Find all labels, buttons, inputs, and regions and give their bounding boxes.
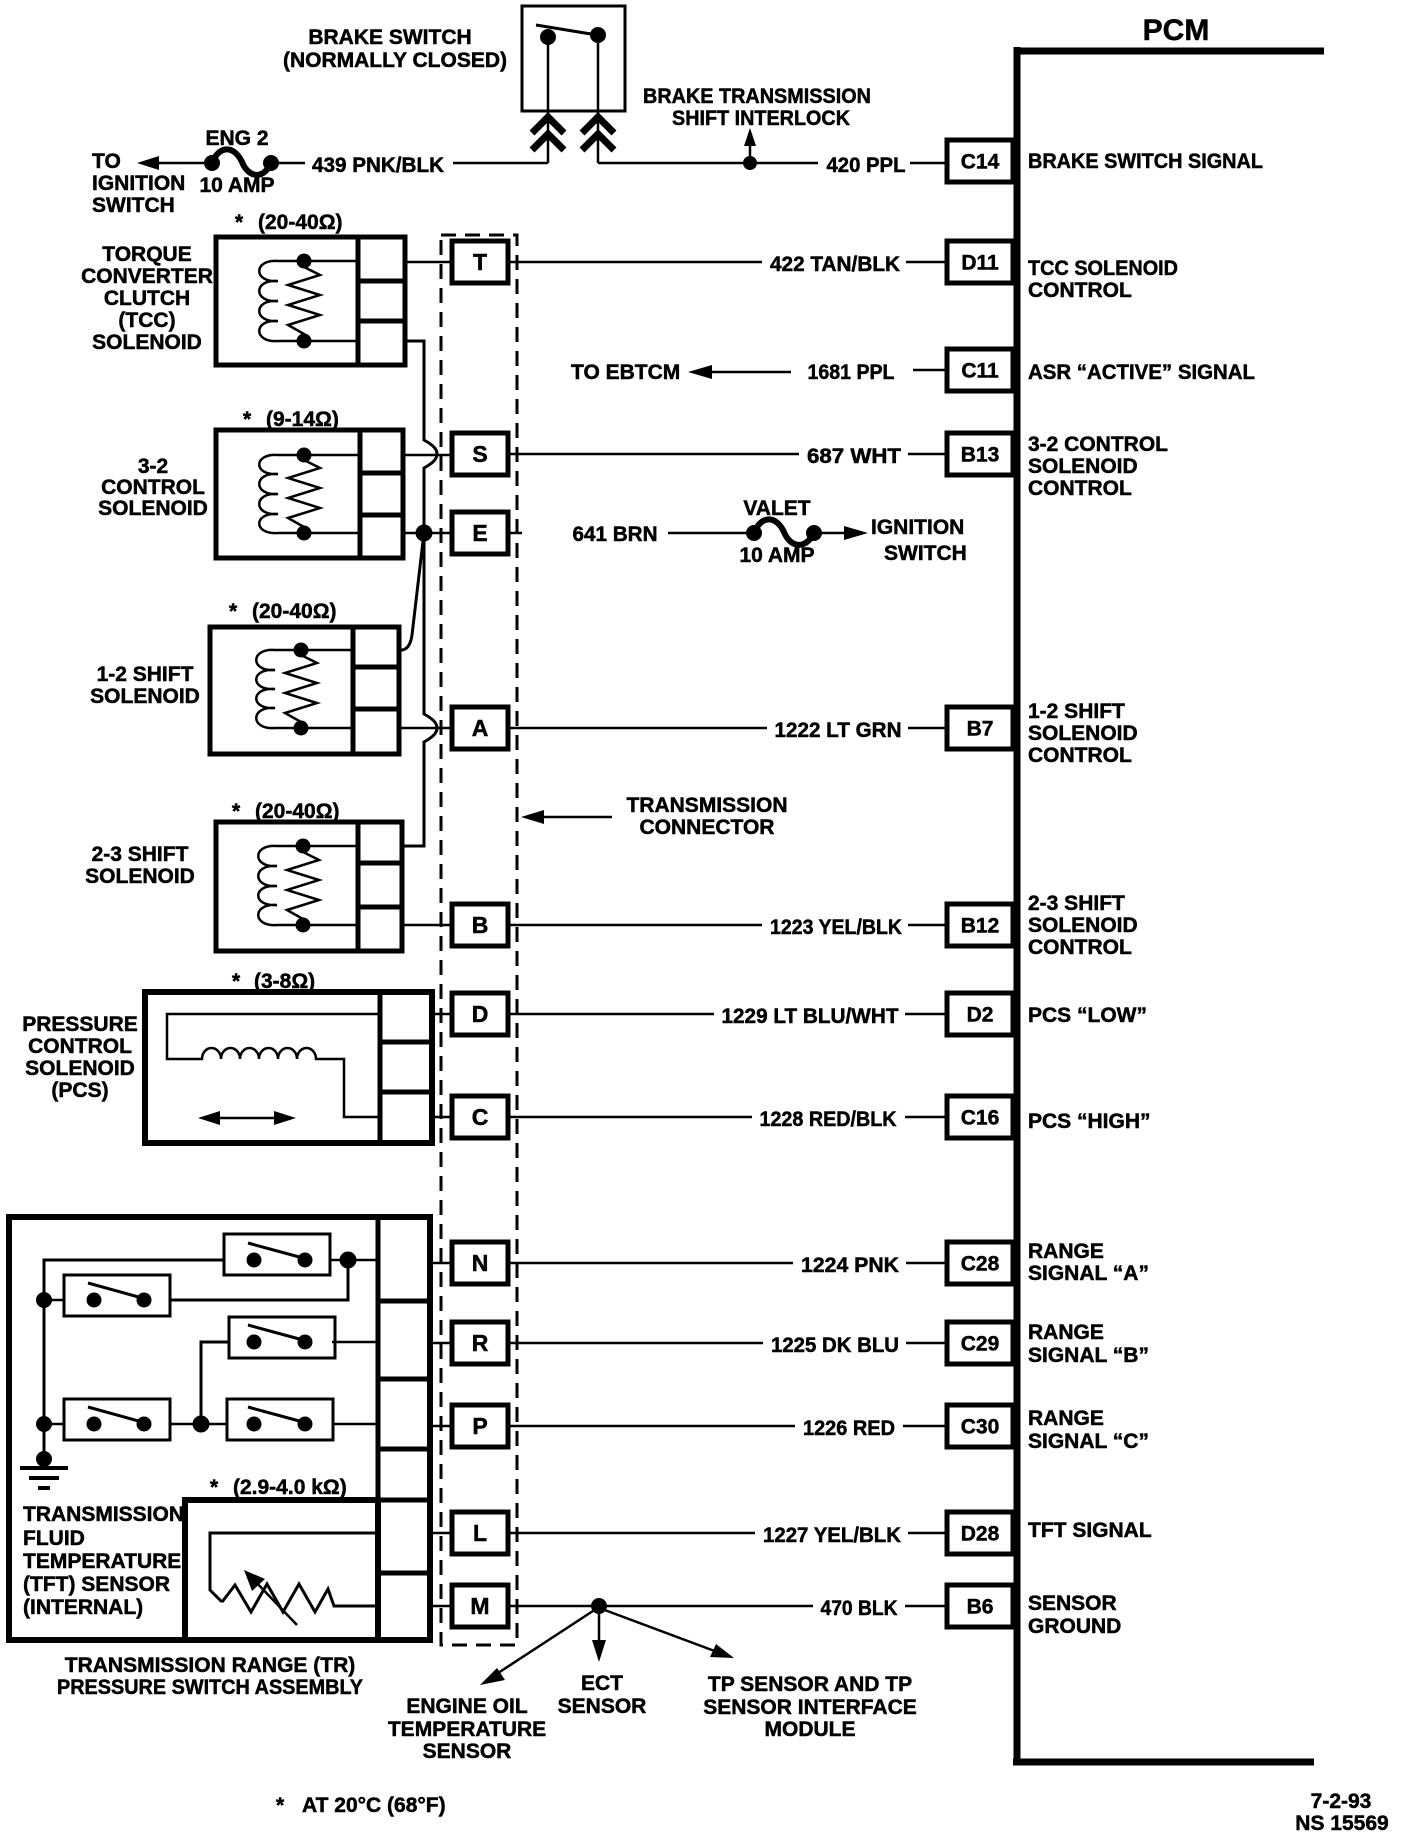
svg-text:SENSOR: SENSOR	[1028, 1592, 1117, 1615]
arrow to ECT sensor	[598, 1610, 601, 1648]
wire 2-3 bottom pin to B	[402, 924, 452, 927]
svg-text:TCC SOLENOID: TCC SOLENOID	[1028, 257, 1178, 280]
svg-text:1222 LT GRN: 1222 LT GRN	[775, 719, 902, 742]
svg-text:439 PNK/BLK: 439 PNK/BLK	[312, 154, 444, 177]
3-2 control solenoid	[216, 430, 403, 558]
thermistor arrow	[252, 1578, 297, 1625]
svg-text:D28: D28	[961, 1523, 1000, 1546]
connector pin S	[452, 433, 508, 475]
svg-text:(20-40Ω): (20-40Ω)	[258, 211, 343, 234]
svg-text:(TCC): (TCC)	[118, 309, 175, 332]
node SW3/SW5 junction	[193, 1416, 210, 1433]
PCM pin B12	[947, 904, 1013, 946]
svg-text:TEMPERATURE: TEMPERATURE	[23, 1550, 181, 1573]
connector pin N	[452, 1242, 508, 1284]
svg-text:TP SENSOR AND TP: TP SENSOR AND TP	[708, 1673, 912, 1696]
svg-text:D: D	[472, 1001, 489, 1027]
wire 1225 DK BLU	[508, 1342, 763, 1345]
wire 470 BLK	[508, 1605, 813, 1608]
svg-text:SWITCH: SWITCH	[92, 194, 175, 217]
svg-text:420 PPL: 420 PPL	[827, 154, 906, 177]
svg-text:L: L	[473, 1520, 487, 1546]
svg-text:C: C	[472, 1104, 489, 1130]
PCM pin B7	[947, 707, 1013, 749]
TCC solenoid	[216, 237, 405, 365]
svg-text:*: *	[232, 800, 241, 823]
brake switch (normally closed)	[522, 6, 625, 111]
wire 439 PNK/BLK	[277, 162, 305, 165]
transmission fluid temperature (TFT) sensor box	[185, 1500, 378, 1640]
svg-text:B13: B13	[961, 444, 1000, 467]
svg-text:CONVERTER: CONVERTER	[81, 265, 213, 288]
svg-text:*: *	[232, 970, 241, 993]
svg-text:D2: D2	[967, 1004, 994, 1027]
wire 1-2 bottom pin to A	[399, 727, 452, 730]
svg-text:SENSOR: SENSOR	[423, 1740, 512, 1763]
coil winding	[259, 261, 304, 341]
svg-text:1-2 SHIFT: 1-2 SHIFT	[97, 663, 194, 686]
svg-text:SOLENOID: SOLENOID	[25, 1057, 135, 1080]
svg-text:FLUID: FLUID	[23, 1527, 85, 1550]
wire P row	[44, 1423, 64, 1426]
svg-text:SOLENOID: SOLENOID	[1028, 914, 1138, 937]
arrow to engine oil temperature sensor	[492, 1609, 596, 1677]
wire 1224 PNK	[508, 1262, 793, 1265]
svg-text:SENSOR: SENSOR	[558, 1695, 647, 1718]
pressure switch SW3 (range B)	[229, 1317, 335, 1358]
svg-text:470 BLK: 470 BLK	[821, 1597, 898, 1620]
ground	[36, 1451, 52, 1467]
svg-text:TORQUE: TORQUE	[102, 243, 191, 266]
svg-text:1681 PPL: 1681 PPL	[808, 361, 895, 384]
PCM pin C11	[947, 349, 1013, 391]
svg-text:TRANSMISSION: TRANSMISSION	[23, 1503, 184, 1526]
node range A junction	[340, 1252, 357, 1269]
svg-text:SOLENOID: SOLENOID	[92, 331, 202, 354]
PCM pin C16	[947, 1096, 1013, 1138]
wire TR box to pin	[430, 1605, 452, 1608]
svg-text:(20-40Ω): (20-40Ω)	[252, 600, 337, 623]
pressure switch SW5 (range C)	[227, 1399, 333, 1440]
svg-text:1229 LT BLU/WHT: 1229 LT BLU/WHT	[722, 1005, 899, 1028]
svg-text:TFT SIGNAL: TFT SIGNAL	[1028, 1519, 1152, 1542]
wire 1222 LT GRN	[508, 727, 767, 730]
fuse VALET 10 AMP	[746, 525, 762, 541]
svg-text:CONTROL: CONTROL	[28, 1035, 132, 1058]
resistor element	[288, 455, 320, 532]
wire node E down to 2-3 top pin (with crossover)	[402, 533, 437, 846]
connector pin R	[452, 1322, 508, 1364]
svg-text:C28: C28	[961, 1253, 1000, 1276]
TFT thermistor wiring	[210, 1533, 378, 1602]
svg-text:A: A	[472, 715, 489, 741]
svg-text:T: T	[473, 249, 487, 275]
2-3 shift solenoid	[216, 822, 402, 951]
wire coil to pins	[301, 649, 353, 652]
wire 3-2 bottom pin to E	[403, 532, 452, 535]
arrow to transmission connector	[534, 816, 612, 819]
PCM pin D11	[947, 241, 1013, 283]
svg-text:10 AMP: 10 AMP	[199, 174, 274, 197]
svg-text:2-3 SHIFT: 2-3 SHIFT	[92, 843, 189, 866]
wire coil to pins	[304, 454, 360, 457]
node bottom terminal	[297, 526, 312, 541]
svg-text:SIGNAL “B”: SIGNAL “B”	[1028, 1344, 1149, 1367]
svg-text:C29: C29	[961, 1333, 1000, 1356]
svg-text:RANGE: RANGE	[1028, 1240, 1104, 1263]
svg-text:MODULE: MODULE	[765, 1718, 856, 1741]
svg-text:10 AMP: 10 AMP	[739, 544, 814, 567]
wire 1226 RED	[508, 1425, 795, 1428]
node top terminal	[297, 254, 312, 269]
PCS armature double arrow	[212, 1117, 282, 1120]
svg-text:ECT: ECT	[581, 1672, 623, 1695]
node bottom terminal	[296, 918, 311, 933]
svg-text:PCM: PCM	[1143, 14, 1210, 47]
svg-text:SOLENOID: SOLENOID	[1028, 455, 1138, 478]
svg-text:N: N	[472, 1250, 489, 1276]
connector chevrons right pin	[582, 117, 614, 150]
arrow to ignition switch	[155, 162, 209, 165]
coil winding	[258, 846, 303, 925]
coil winding	[256, 650, 301, 728]
svg-text:*: *	[235, 211, 244, 234]
svg-text:C16: C16	[961, 1107, 1000, 1130]
wire SW2 left	[44, 1299, 64, 1302]
wire SW2 to range A junction	[170, 1268, 348, 1300]
fuse ENG 2 10 AMP	[204, 155, 220, 171]
wire 1681 PPL	[913, 369, 947, 372]
wire TR box to pin	[430, 1342, 452, 1345]
svg-text:3-2: 3-2	[138, 455, 168, 478]
PCM pin C29	[947, 1322, 1013, 1364]
svg-text:422 TAN/BLK: 422 TAN/BLK	[770, 253, 900, 276]
wire brake switch left pin	[547, 37, 550, 163]
svg-text:(20-40Ω): (20-40Ω)	[255, 800, 340, 823]
svg-text:PRESSURE: PRESSURE	[22, 1013, 138, 1036]
svg-text:1228 RED/BLK: 1228 RED/BLK	[760, 1108, 897, 1131]
wire 3-2 top pin to S	[403, 454, 452, 457]
resistor element	[285, 650, 317, 727]
node E junction	[416, 525, 433, 542]
connector pin B	[452, 904, 508, 946]
svg-text:SOLENOID: SOLENOID	[98, 497, 208, 520]
svg-text:(INTERNAL): (INTERNAL)	[23, 1596, 143, 1619]
resistor element	[288, 261, 320, 340]
svg-text:CONTROL: CONTROL	[1028, 936, 1132, 959]
svg-text:CONTROL: CONTROL	[1028, 279, 1132, 302]
svg-text:BRAKE TRANSMISSION: BRAKE TRANSMISSION	[643, 85, 871, 108]
svg-text:GROUND: GROUND	[1028, 1615, 1121, 1638]
resistor element	[287, 846, 319, 925]
svg-text:*: *	[229, 600, 238, 623]
svg-text:CONTROL: CONTROL	[101, 476, 205, 499]
svg-text:VALET: VALET	[743, 497, 810, 520]
svg-text:PCS “LOW”: PCS “LOW”	[1028, 1004, 1147, 1027]
svg-text:C14: C14	[961, 151, 1000, 174]
svg-text:2-3 SHIFT: 2-3 SHIFT	[1028, 892, 1125, 915]
arrow to ignition switch (valet)	[820, 532, 852, 535]
svg-text:1226 RED: 1226 RED	[803, 1417, 895, 1440]
svg-text:BRAKE SWITCH SIGNAL: BRAKE SWITCH SIGNAL	[1028, 150, 1263, 173]
svg-text:(NORMALLY CLOSED): (NORMALLY CLOSED)	[283, 49, 507, 72]
svg-text:CONTROL: CONTROL	[1028, 477, 1132, 500]
connector pin L	[452, 1512, 508, 1554]
wire 1228 RED/BLK	[508, 1116, 752, 1119]
svg-text:SWITCH: SWITCH	[884, 542, 967, 565]
connector pin D	[452, 993, 508, 1035]
transmission range (TR) pressure switch assembly box	[9, 1217, 430, 1640]
svg-text:SOLENOID: SOLENOID	[90, 685, 200, 708]
PCM pin B13	[947, 433, 1013, 475]
connector pin C	[452, 1096, 508, 1138]
wire 687 WHT	[508, 453, 799, 456]
svg-text:M: M	[470, 1593, 489, 1619]
PCM pin D2	[947, 993, 1013, 1035]
connector pin T	[452, 241, 508, 283]
svg-text:3-2 CONTROL: 3-2 CONTROL	[1028, 433, 1168, 456]
svg-text:IGNITION: IGNITION	[871, 516, 964, 539]
svg-text:BRAKE SWITCH: BRAKE SWITCH	[308, 26, 471, 49]
wire TR box to pin	[430, 1262, 452, 1265]
svg-text:SOLENOID: SOLENOID	[1028, 722, 1138, 745]
wire brake switch right pin	[597, 35, 600, 163]
svg-text:TO: TO	[92, 150, 121, 173]
svg-text:CONTROL: CONTROL	[1028, 744, 1132, 767]
wire 1-2 top pin up to node E	[399, 541, 423, 650]
svg-text:IGNITION: IGNITION	[92, 172, 185, 195]
svg-text:AT 20°C (68°F): AT 20°C (68°F)	[302, 1794, 446, 1817]
svg-text:PCS “HIGH”: PCS “HIGH”	[1028, 1110, 1151, 1133]
svg-text:S: S	[472, 441, 487, 467]
wire 420 PPL	[598, 162, 818, 165]
PCM pin C30	[947, 1405, 1013, 1447]
svg-text:TEMPERATURE: TEMPERATURE	[388, 1718, 546, 1741]
pressure control solenoid (PCS)	[145, 992, 432, 1143]
svg-text:RANGE: RANGE	[1028, 1407, 1104, 1430]
svg-text:B6: B6	[967, 1596, 994, 1619]
svg-text:*: *	[210, 1476, 219, 1499]
arrow TO EBTCM	[702, 371, 791, 374]
wire SW3 to pin R	[332, 1341, 378, 1344]
connector pin E	[452, 512, 508, 554]
svg-text:ENG 2: ENG 2	[205, 127, 268, 150]
node bottom terminal	[294, 721, 309, 736]
svg-text:(PCS): (PCS)	[51, 1079, 108, 1102]
svg-text:(3-8Ω): (3-8Ω)	[254, 970, 315, 993]
svg-text:RANGE: RANGE	[1028, 1321, 1104, 1344]
svg-text:SIGNAL “C”: SIGNAL “C”	[1028, 1430, 1149, 1453]
svg-text:7-2-93: 7-2-93	[1311, 1790, 1372, 1813]
svg-text:PRESSURE SWITCH ASSEMBLY: PRESSURE SWITCH ASSEMBLY	[57, 1676, 363, 1699]
wire 1229 LT BLU/WHT	[508, 1013, 714, 1016]
connector pin P	[452, 1405, 508, 1447]
svg-text:B12: B12	[961, 915, 1000, 938]
svg-text:1-2 SHIFT: 1-2 SHIFT	[1028, 700, 1125, 723]
svg-text:SIGNAL “A”: SIGNAL “A”	[1028, 1262, 1149, 1285]
wire 1223 YEL/BLK	[508, 924, 762, 927]
svg-text:(9-14Ω): (9-14Ω)	[266, 408, 339, 431]
svg-text:CLUTCH: CLUTCH	[104, 287, 190, 310]
PCM pin B6	[947, 1585, 1013, 1627]
wire SW3 left to P row	[201, 1342, 229, 1424]
svg-text:TRANSMISSION RANGE (TR): TRANSMISSION RANGE (TR)	[65, 1654, 356, 1677]
connector pin M	[452, 1585, 508, 1627]
PCM pin D28	[947, 1512, 1013, 1554]
node bottom terminal	[297, 334, 312, 349]
svg-text:E: E	[472, 520, 487, 546]
transmission connector (dashed outline)	[441, 235, 517, 1645]
svg-text:1225 DK BLU: 1225 DK BLU	[771, 1334, 899, 1357]
svg-text:R: R	[472, 1330, 489, 1356]
coil winding	[259, 455, 304, 533]
wire 1227 YEL/BLK	[508, 1532, 755, 1535]
node sensor-ground junction on 470 BLK	[591, 1598, 607, 1614]
svg-text:687 WHT: 687 WHT	[807, 445, 901, 468]
arrow to TP sensor interface	[602, 1609, 720, 1653]
node brake interlock junction + arrow	[743, 156, 757, 170]
thermistor resistor	[222, 1584, 378, 1612]
connector chevrons left pin	[532, 117, 564, 150]
svg-text:ASR “ACTIVE” SIGNAL: ASR “ACTIVE” SIGNAL	[1028, 361, 1255, 384]
pressure switch SW1 (range A)	[224, 1234, 330, 1275]
wire TCC top pin to T	[405, 261, 452, 264]
svg-text:1224 PNK: 1224 PNK	[801, 1254, 899, 1277]
wire 641 BRN	[508, 532, 522, 535]
wire TR box to pin	[430, 1532, 452, 1535]
node top terminal	[296, 839, 311, 854]
svg-text:*: *	[276, 1794, 285, 1817]
node top terminal	[297, 448, 312, 463]
svg-text:*: *	[243, 408, 252, 431]
svg-text:NS 15569: NS 15569	[1295, 1812, 1388, 1834]
node SW2 feed junction	[36, 1292, 52, 1308]
wire PCS to D	[432, 1013, 452, 1016]
PCM pin C14	[947, 140, 1013, 182]
wire PCS to C	[432, 1116, 452, 1119]
svg-text:SOLENOID: SOLENOID	[85, 865, 195, 888]
node P feed junction	[36, 1416, 52, 1432]
svg-text:B: B	[472, 912, 489, 938]
wire coil to pins	[304, 260, 358, 263]
svg-text:ENGINE OIL: ENGINE OIL	[406, 1695, 528, 1718]
svg-text:641 BRN: 641 BRN	[573, 523, 658, 546]
svg-text:(TFT) SENSOR: (TFT) SENSOR	[23, 1573, 170, 1596]
pressure switch SW4	[64, 1399, 170, 1440]
svg-text:SENSOR INTERFACE: SENSOR INTERFACE	[703, 1696, 917, 1719]
PCS coil winding	[167, 1014, 380, 1117]
svg-text:SHIFT INTERLOCK: SHIFT INTERLOCK	[672, 107, 850, 130]
wire TCC bottom pin down to node E	[405, 341, 437, 533]
1-2 shift solenoid	[210, 627, 399, 754]
svg-text:D11: D11	[961, 252, 999, 275]
PCM pin C28	[947, 1242, 1013, 1284]
svg-text:TRANSMISSION: TRANSMISSION	[626, 794, 787, 817]
wire 422 TAN/BLK	[509, 261, 762, 264]
PCM module outline	[1013, 47, 1324, 1765]
svg-text:C11: C11	[961, 360, 999, 383]
connector pin A	[452, 707, 508, 749]
svg-text:B7: B7	[967, 718, 994, 741]
svg-text:1227 YEL/BLK: 1227 YEL/BLK	[763, 1524, 901, 1547]
wire range A feed	[44, 1260, 224, 1459]
svg-text:CONNECTOR: CONNECTOR	[640, 816, 775, 839]
node top terminal	[294, 643, 309, 658]
wire TR box to pin	[430, 1425, 452, 1428]
svg-text:1223 YEL/BLK: 1223 YEL/BLK	[770, 916, 902, 939]
svg-text:C30: C30	[961, 1416, 1000, 1439]
wire SW1 to pin N	[330, 1259, 378, 1262]
wire coil to pins	[303, 845, 358, 848]
svg-text:TO EBTCM: TO EBTCM	[571, 361, 680, 384]
svg-text:(2.9-4.0 kΩ): (2.9-4.0 kΩ)	[233, 1476, 347, 1499]
svg-text:P: P	[472, 1413, 487, 1439]
pressure switch SW2	[64, 1275, 170, 1316]
